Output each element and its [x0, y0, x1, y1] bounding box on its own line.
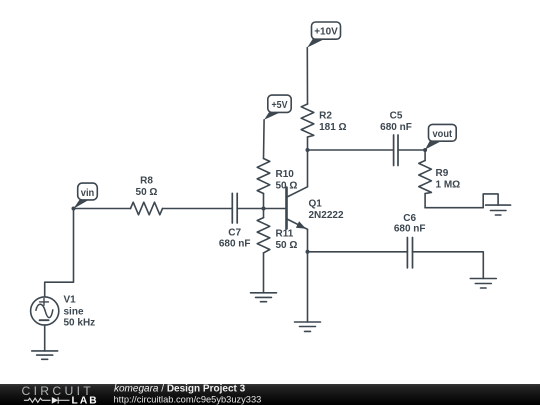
ground below emitter	[295, 322, 321, 331]
wire C6 to lower right ground	[413, 252, 484, 279]
wire R9 to right ground (jog)	[425, 194, 498, 208]
capacitor C5	[380, 111, 412, 166]
ground below R11	[251, 293, 277, 302]
capacitor C6	[394, 213, 426, 268]
svg-text:R8: R8	[140, 176, 153, 187]
ground below V1	[32, 351, 58, 359]
wire collector row to C5	[308, 149, 394, 151]
svg-text:C6: C6	[403, 213, 416, 224]
wire vin junction down to V1	[45, 209, 74, 297]
capacitor C7	[219, 193, 251, 249]
resistor R2	[301, 104, 346, 150]
wire V1 to ground	[44, 325, 46, 351]
junction node emitter	[306, 250, 310, 254]
wire base junction to Q1 base	[264, 208, 287, 210]
svg-text:Q1: Q1	[309, 199, 323, 210]
junction node base	[262, 207, 266, 211]
svg-text:1 MΩ: 1 MΩ	[436, 180, 461, 191]
svg-text:R11: R11	[276, 229, 294, 240]
net flag +5V	[264, 95, 291, 120]
resistor R10	[257, 120, 297, 209]
resistor R8	[131, 176, 163, 215]
svg-text:vout: vout	[433, 129, 453, 140]
svg-text:vin: vin	[81, 188, 95, 199]
svg-text:C5: C5	[390, 111, 403, 122]
svg-text:+5V: +5V	[272, 100, 288, 111]
net flag vout	[425, 124, 456, 149]
svg-text:R9: R9	[436, 168, 449, 179]
wire emitter to ground	[307, 252, 309, 322]
wire C5 to vout	[398, 149, 425, 151]
svg-text:V1: V1	[64, 295, 77, 306]
svg-text:2N2222: 2N2222	[309, 210, 344, 221]
resistor R11	[257, 209, 297, 293]
wire emitter row to C6	[308, 251, 408, 253]
junction node vout	[423, 148, 427, 152]
svg-text:R2: R2	[319, 111, 332, 122]
voltage source V1	[31, 295, 96, 329]
svg-text:50 Ω: 50 Ω	[276, 240, 298, 251]
svg-text:680 nF: 680 nF	[219, 239, 251, 250]
wire R8 to C7	[163, 208, 233, 210]
ground below C6 wire	[470, 279, 496, 289]
ground right of R9	[486, 205, 511, 215]
svg-text:50 kHz: 50 kHz	[64, 318, 96, 329]
svg-text:sine: sine	[64, 307, 84, 318]
svg-text:50 Ω: 50 Ω	[136, 187, 158, 198]
svg-text:komegara / Design Project 3: komegara / Design Project 3	[114, 384, 246, 395]
footer bar	[0, 384, 540, 405]
net flag vin	[73, 183, 97, 209]
svg-text:LAB: LAB	[72, 396, 99, 405]
svg-text:680 nF: 680 nF	[394, 224, 426, 235]
resistor R9	[419, 150, 460, 208]
wire vin to R8	[74, 208, 131, 210]
junction node collector	[306, 148, 310, 152]
wire Q1 collector up	[307, 150, 309, 187]
svg-text:+10V: +10V	[314, 27, 338, 38]
svg-text:680 nF: 680 nF	[380, 122, 412, 133]
junction node vin	[72, 207, 76, 211]
wire C7 to base junction	[237, 208, 263, 210]
svg-text:C7: C7	[228, 228, 241, 239]
svg-text:http://circuitlab.com/c9e5yb3u: http://circuitlab.com/c9e5yb3uzy333	[114, 395, 262, 405]
net flag +10V	[307, 22, 340, 48]
CircuitLab logo	[22, 384, 99, 405]
wire +10V to R2	[306, 48, 308, 105]
svg-text:181 Ω: 181 Ω	[319, 122, 346, 133]
transistor Q1	[287, 187, 344, 230]
svg-text:R10: R10	[276, 169, 295, 180]
wire Q1 emitter down	[307, 229, 309, 252]
